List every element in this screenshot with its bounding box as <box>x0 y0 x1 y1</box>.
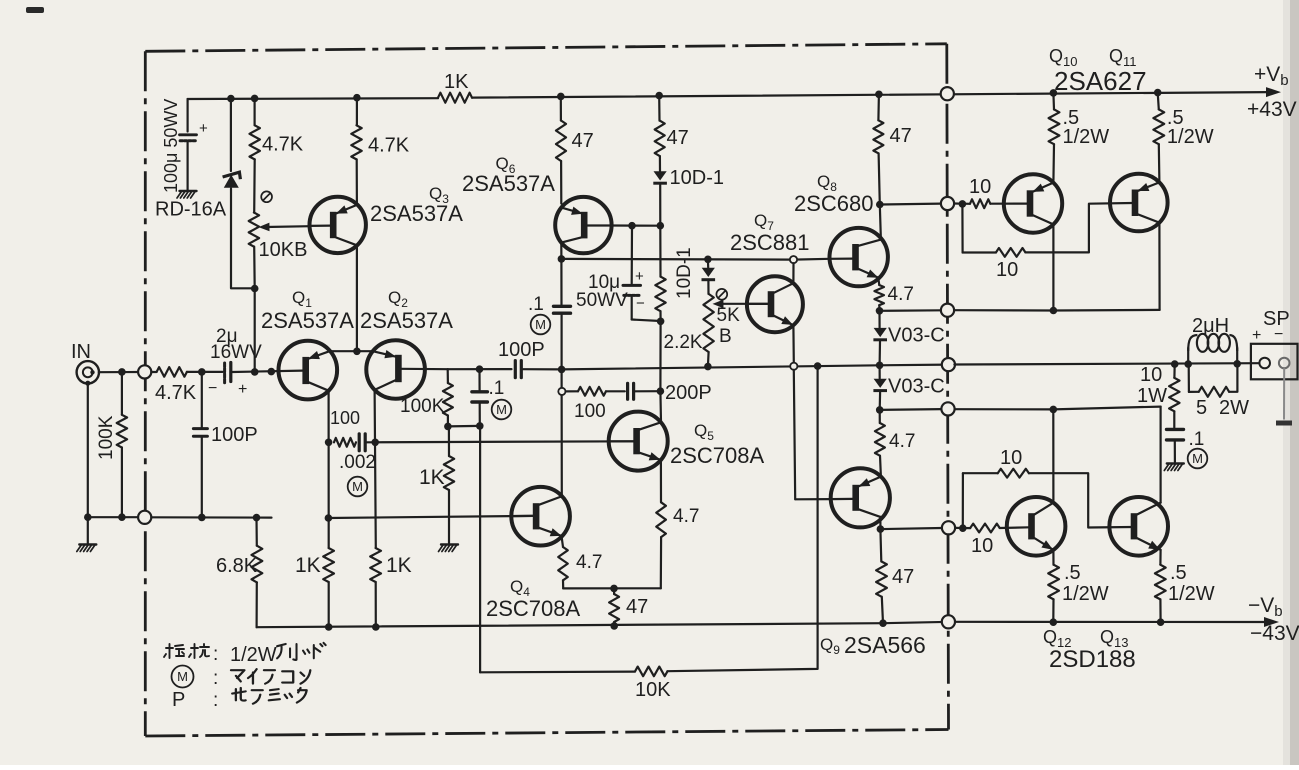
wire Q5 emitter to 4.7 <box>660 460 662 502</box>
module border right <box>947 44 949 730</box>
wire chain to Q5 collector <box>659 391 662 422</box>
resistor 100K (input shunt) <box>121 372 123 415</box>
svg-text:5: 5 <box>1196 397 1207 419</box>
svg-text:100: 100 <box>574 401 606 422</box>
terminal GND on border <box>138 511 151 524</box>
node 47 tail <box>610 585 618 593</box>
wire Q2 base to fb node <box>401 368 447 371</box>
wire V03-C bottom to border <box>880 408 942 411</box>
terminal on border (-Vb) <box>942 615 955 628</box>
resistor 47 (Q8 collector) <box>877 94 880 120</box>
svg-text:100: 100 <box>330 408 360 428</box>
node V03-C bottom <box>876 406 884 414</box>
wire to diode 1 <box>878 311 880 328</box>
svg-text:B: B <box>719 326 732 347</box>
wire jack to border terminal <box>99 371 138 373</box>
svg-text:10K: 10K <box>635 679 671 701</box>
wire 4.7K to pot <box>253 159 256 212</box>
svg-text:1/2W: 1/2W <box>1168 583 1215 605</box>
svg-text:10D-1: 10D-1 <box>670 167 724 189</box>
node bias chain bottom <box>704 363 712 371</box>
+Vb rail wire right <box>472 92 1268 98</box>
resistor 10 (Q10 base) <box>970 199 990 208</box>
wire diode to Q6 base node <box>659 185 661 226</box>
wire Q6 collector down <box>560 243 562 259</box>
resistor 100K (feedback) <box>447 369 449 383</box>
wire diode1 to mid <box>878 342 881 366</box>
node coil left <box>1184 360 1192 368</box>
node coil right <box>1233 360 1241 368</box>
module border top <box>145 44 947 52</box>
wire common emitters <box>330 350 373 352</box>
svg-text:47: 47 <box>892 566 914 588</box>
wire Q8 emitter to 4.7 <box>878 278 879 285</box>
diode V03-C (upper) <box>874 328 887 337</box>
svg-text:47: 47 <box>626 596 648 618</box>
transistor Q6 2SA537A <box>555 197 611 253</box>
diode V03-C (lower) <box>874 379 887 388</box>
resistor 100 (bridge) <box>334 438 356 447</box>
svg-text:M: M <box>535 317 546 332</box>
resistor 47 (Q6 emitter) <box>556 121 566 162</box>
node 10u tap <box>628 222 636 230</box>
input jack <box>77 361 99 386</box>
label M (zobel) <box>1188 449 1208 469</box>
node upper drive <box>959 200 967 208</box>
node lower drive <box>959 524 967 532</box>
svg-text:IN: IN <box>71 341 91 363</box>
SP terminal + circle <box>1259 358 1270 369</box>
pot 5K wiper arrow (Q7 base) <box>722 303 768 305</box>
node zener/pot junction <box>251 285 259 293</box>
svg-text:V03-C: V03-C <box>888 376 945 398</box>
svg-text:2SA566: 2SA566 <box>844 632 926 658</box>
capacitor .1 M (feedback) <box>478 369 480 390</box>
svg-text:2W: 2W <box>1219 397 1249 419</box>
transistor Q10 2SA627 <box>1004 174 1062 232</box>
diode 10D-1 (upper) <box>654 171 667 180</box>
-Vb rail wire <box>257 622 1266 627</box>
svg-text:100K: 100K <box>400 396 445 417</box>
node RC bridge left <box>325 439 333 447</box>
svg-text:M: M <box>1192 451 1203 466</box>
svg-text:M: M <box>496 402 507 417</box>
svg-text:−43V: −43V <box>1250 622 1299 645</box>
wire V03-C top to border <box>880 309 942 312</box>
svg-text:10KB: 10KB <box>259 239 308 261</box>
svg-text:10D-1: 10D-1 <box>674 247 695 299</box>
transistor Q3 2SA537A <box>310 197 366 253</box>
svg-text:4.7K: 4.7K <box>368 135 410 157</box>
resistor .5 1/2W (Q12) <box>1052 550 1054 565</box>
wire bias node down to Q1 base <box>254 289 256 372</box>
node 100K input top <box>118 368 126 376</box>
svg-text:100P: 100P <box>498 339 545 361</box>
ground (feedback 1K) <box>441 543 458 545</box>
svg-text:2.2K: 2.2K <box>664 332 703 353</box>
svg-text::: : <box>213 644 218 665</box>
resistor 10 (cross lower) <box>998 469 1029 478</box>
transistor Q4 2SC708A <box>511 487 570 546</box>
SP terminal - circle <box>1279 358 1290 369</box>
svg-text:+: + <box>635 268 644 285</box>
svg-text:4.7: 4.7 <box>888 284 914 305</box>
node 100K-fb top <box>268 368 276 376</box>
open junction Q7 collector <box>790 256 797 263</box>
SP terminal box <box>1251 344 1298 380</box>
potentiometer 5K B <box>703 294 713 352</box>
wire 4.7K top <box>254 98 256 125</box>
node fb divider <box>444 423 452 431</box>
transistor Q9 2SA566 <box>831 468 890 527</box>
svg-text:100P: 100P <box>211 424 258 446</box>
wire Q12 collector up <box>1052 409 1054 502</box>
top-left stray mark <box>26 7 44 13</box>
wire upper drive to 10 <box>954 202 970 205</box>
zener diode RD-16A <box>224 175 239 188</box>
wire drive line to Q8 base <box>561 258 793 261</box>
resistor 6.8K <box>255 518 257 546</box>
node 10u bottom tap <box>657 318 665 326</box>
inductor 2uH <box>1188 334 1237 364</box>
terminal IN on border <box>138 365 151 378</box>
SP return wire <box>1283 368 1285 419</box>
terminal lower output on border <box>941 402 954 415</box>
wire VAS down to Q4 collector <box>560 369 562 496</box>
resistor 4.7 (Q4 emitter) <box>558 547 568 580</box>
node Q6 base on chain <box>657 222 665 230</box>
svg-text:16WV: 16WV <box>210 342 262 363</box>
terminal lower drive on border <box>942 521 955 534</box>
transistor Q13 2SD188 <box>1109 497 1168 556</box>
node output fb tap <box>814 362 822 370</box>
svg-text:10: 10 <box>1140 364 1162 386</box>
wire diode2 to bottom node <box>879 392 882 410</box>
svg-text:.5: .5 <box>1064 562 1081 584</box>
legend katakana SORIDDO <box>277 643 326 660</box>
svg-text:47: 47 <box>667 127 689 149</box>
potentiometer 10KB <box>249 213 259 247</box>
node VAS output <box>558 366 566 374</box>
svg-text:200P: 200P <box>665 382 712 404</box>
+Vb rail wire <box>188 97 438 100</box>
svg-text:+43V: +43V <box>1247 98 1297 121</box>
svg-text:10: 10 <box>971 535 993 557</box>
svg-text:2μH: 2μH <box>1192 315 1229 337</box>
svg-text:2SA537A: 2SA537A <box>360 308 453 333</box>
wire cross-couple riser left (lower) <box>962 473 964 528</box>
node comp on chain <box>657 387 665 395</box>
svg-text:5K: 5K <box>717 305 741 326</box>
ground (zobel) <box>1167 462 1184 464</box>
svg-text:1W: 1W <box>1137 385 1167 407</box>
wire diode to pot <box>707 281 709 294</box>
resistor 47 (Q9 collector) <box>879 529 882 561</box>
svg-text:100K: 100K <box>96 415 117 460</box>
wire 1K to bus <box>328 582 330 627</box>
wire cross-couple right <box>1025 203 1132 252</box>
wire Q2 collector <box>375 390 376 548</box>
svg-text:1K: 1K <box>386 554 412 577</box>
SP return ground bar <box>1276 421 1292 426</box>
capacitor 100P (coupling) <box>448 368 512 370</box>
-Vb rail arrowhead <box>1264 617 1279 627</box>
resistor 5 2W (damping) <box>1188 364 1190 392</box>
wire zener top <box>230 99 232 171</box>
wire Q4 base line <box>328 516 533 518</box>
node bus Q2 <box>372 623 380 631</box>
svg-text:.5: .5 <box>1170 562 1187 584</box>
ground bus inside <box>151 516 271 518</box>
svg-text:.1: .1 <box>528 294 544 315</box>
capacitor 2u 16WV <box>225 363 231 383</box>
svg-text:10: 10 <box>1000 447 1022 469</box>
node zobel tap <box>1171 360 1179 368</box>
svg-text:2SA537A: 2SA537A <box>261 308 354 333</box>
svg-text:10: 10 <box>969 176 991 198</box>
node Q10 collector on bus <box>1050 307 1058 315</box>
wire cross-couple riser left (upper) <box>961 204 963 253</box>
svg-text::: : <box>213 668 218 689</box>
resistor .5 1/2W (Q13) <box>1159 550 1161 565</box>
pot 10KB wiper arrow to Q3 base <box>266 225 310 228</box>
svg-text:2SC680: 2SC680 <box>794 191 874 216</box>
svg-text:47: 47 <box>890 125 912 147</box>
wire Q1 collector <box>328 391 330 548</box>
transistor Q11 2SA627 <box>1110 174 1168 232</box>
resistor .5 1/2W (Q11) <box>1153 109 1164 144</box>
node bus Q1 <box>325 623 333 631</box>
wire cross-couple left <box>963 251 996 253</box>
ground (input jack) <box>87 517 89 543</box>
svg-text:2SA537A: 2SA537A <box>370 201 463 226</box>
svg-text:+: + <box>199 120 208 137</box>
wire 47 to diode <box>659 156 661 171</box>
svg-text:6.8K: 6.8K <box>216 555 258 577</box>
transistor Q1 2SA537A <box>279 341 338 400</box>
svg-text:RD-16A: RD-16A <box>155 199 227 221</box>
wire Q9 collector <box>879 517 881 529</box>
wire Q5 base line <box>375 441 634 442</box>
open junction Q7 emitter <box>790 363 797 370</box>
svg-text:1/2W: 1/2W <box>1062 583 1109 605</box>
transistor Q12 2SD188 <box>1007 497 1066 556</box>
terminal upper drive on border <box>941 197 954 210</box>
wire Q6 base line <box>611 224 660 226</box>
wire 4.7K to Q3 <box>356 159 358 204</box>
legend katakana SERAMIKKU <box>232 688 306 704</box>
svg-text:10: 10 <box>996 259 1018 281</box>
wire drive-out to border <box>880 203 941 206</box>
rail dots (-Vb) <box>610 622 618 630</box>
svg-text:2SC708A: 2SC708A <box>486 596 581 621</box>
svg-text:1K: 1K <box>444 71 469 93</box>
wire Q9 collector to border <box>880 528 941 529</box>
node Q9 collector <box>877 525 885 533</box>
wire output line (mid) <box>562 365 949 370</box>
label M (bridge) <box>348 477 368 497</box>
wire 4.7K top (Q3) <box>356 98 358 126</box>
svg-text:P: P <box>172 689 185 711</box>
wire Q10 collector down <box>1052 224 1054 310</box>
capacitor .002 M (bridge) <box>358 434 361 451</box>
capacitor .1 M (VAS) <box>560 259 562 305</box>
node Q4 base tap <box>325 514 333 522</box>
wire chain to comp node <box>659 321 661 391</box>
resistor 4.7K (input series) <box>151 371 156 373</box>
resistor 4.7 (Q9 emitter) <box>879 410 881 423</box>
node V03-C midpoint <box>876 362 884 370</box>
capacitor .1 M (zobel) <box>1167 428 1184 431</box>
resistor 10 (cross upper) <box>996 248 1025 257</box>
wire cross-couple left (lower) <box>963 472 998 474</box>
wire 47 to Q6 <box>560 161 562 204</box>
svg-text:47: 47 <box>572 130 594 152</box>
resistor 47 (chain) <box>655 121 665 157</box>
resistor 4.7K (Q3 emitter) <box>351 125 361 159</box>
wire common emitter bus (Q4 Q5) <box>563 587 661 589</box>
open junction 100ohm branch <box>558 388 565 395</box>
svg-text::: : <box>213 690 218 711</box>
resistor 100 (comp) <box>566 390 579 392</box>
svg-text:M: M <box>352 479 363 494</box>
capacitor 10u 50WV <box>631 226 633 284</box>
wire 10 to Q12 base <box>1000 526 1030 529</box>
node bias chain top <box>704 255 712 263</box>
wire lower drive to 10 <box>955 527 970 529</box>
wire cap to Q1 base <box>232 371 302 372</box>
resistor 1K (Q2 collector) <box>370 548 381 582</box>
wire pot bottom <box>253 247 256 289</box>
svg-text:1/2W: 1/2W <box>1167 126 1214 148</box>
wire cross-couple right (lower) <box>1029 473 1132 527</box>
rail junction dots <box>227 95 235 103</box>
svg-text:100μ 50WV: 100μ 50WV <box>161 99 181 193</box>
svg-text:−: − <box>1274 326 1283 343</box>
ground (100u cap) <box>180 190 197 192</box>
svg-text:50WV: 50WV <box>576 290 628 311</box>
right page-edge gray band <box>1290 0 1299 765</box>
wire 4.7K to cap node <box>187 371 223 373</box>
svg-text:1K: 1K <box>419 466 445 489</box>
svg-text:−: − <box>636 295 645 312</box>
capacitor 100u 50WV <box>187 99 189 132</box>
svg-text:2SC708A: 2SC708A <box>670 443 765 468</box>
resistor 4.7 (Q5 emitter) <box>656 502 666 537</box>
legend katakana MAIRAKON <box>231 669 310 684</box>
svg-text:2SA537A: 2SA537A <box>462 171 555 196</box>
wire Q13 collector up <box>1159 407 1161 503</box>
wire mid to diode2 <box>878 365 880 378</box>
wire upper collector bus <box>954 309 1160 312</box>
wire speaker line <box>954 363 1259 364</box>
capacitor 200P <box>606 390 625 392</box>
resistor 4.7 (Q8 emitter) <box>874 285 884 305</box>
node common emitter <box>353 348 361 356</box>
svg-text:V03-C: V03-C <box>888 325 945 347</box>
resistor 10 (Q12 base) <box>970 524 1000 533</box>
resistor .5 1/2W (Q10) <box>1049 109 1060 144</box>
wire 10K line <box>480 670 635 673</box>
label M (feedback cap) <box>492 400 512 420</box>
svg-text:−: − <box>208 380 217 397</box>
wire Q4 collector join <box>560 495 562 497</box>
wire 10K to output riser <box>667 366 817 671</box>
node bias join Q1 base <box>251 368 259 376</box>
svg-text:2SD188: 2SD188 <box>1049 646 1136 673</box>
wire Q9 base riser to output line <box>794 370 795 499</box>
wire Q9 base <box>795 498 831 500</box>
wire spreader top <box>707 259 709 267</box>
transistor Q7 2SC881 <box>747 276 803 332</box>
capacitor 100P (input) <box>201 372 203 427</box>
wire Q7 emitter <box>792 325 795 362</box>
wire fb jog <box>448 425 480 428</box>
resistor 2.2K (chain) <box>659 226 661 277</box>
wire 1K to bus (Q2) <box>375 582 377 627</box>
wire Q11 collector down <box>1158 223 1160 310</box>
wire 10 to Q10 base <box>990 203 1027 205</box>
svg-text:2SA627: 2SA627 <box>1054 66 1147 96</box>
input ground bus <box>87 383 89 517</box>
transistor Q8 2SC680 <box>830 228 888 286</box>
wire lower collector bus <box>955 407 1161 410</box>
legend kanji KOU (resistance) <box>189 644 209 658</box>
svg-text:+: + <box>238 381 247 398</box>
wire Q8 collector up <box>880 205 881 240</box>
wire Q3 collector down <box>356 245 358 351</box>
resistor 10 1W (zobel) <box>1173 364 1175 378</box>
wire zener bottom <box>231 189 255 289</box>
node Q6 collector / drive line <box>558 255 566 263</box>
svg-text:4.7: 4.7 <box>673 506 699 527</box>
transistor Q5 2SC708A <box>609 412 668 471</box>
node V03-C top <box>876 307 884 315</box>
wire 47 top (chain) <box>658 96 660 121</box>
svg-text:.002: .002 <box>339 452 376 473</box>
wire 47 top (Q6) <box>560 96 562 120</box>
+Vb rail arrowhead <box>1266 87 1281 97</box>
svg-text:+: + <box>1252 327 1261 344</box>
svg-text:.1: .1 <box>489 378 505 399</box>
svg-text:4.7: 4.7 <box>576 552 602 573</box>
svg-text:4.7K: 4.7K <box>262 134 304 156</box>
svg-text:1K: 1K <box>295 554 321 577</box>
svg-text:1/2W: 1/2W <box>230 644 277 666</box>
resistor 1K (feedback shunt) <box>448 427 450 457</box>
wire pot to bottom node <box>707 352 710 367</box>
svg-text:4.7K: 4.7K <box>155 382 197 404</box>
wire Q4 emitter to 4.7 <box>562 536 564 547</box>
legend kanji TEI (resistor) <box>164 644 184 658</box>
node input coupling <box>198 368 206 376</box>
label M (VAS cap) <box>531 315 551 335</box>
terminal on border (+Vb) <box>941 87 954 100</box>
resistor 1K (rail series) <box>438 93 472 103</box>
node Q8 collector / drive-out <box>876 201 884 209</box>
resistor 4.7K (bias) <box>250 125 260 159</box>
wire Q7 collector <box>792 263 794 283</box>
wire feedback riser <box>479 426 481 672</box>
resistor 47 (tail) <box>609 594 619 622</box>
resistor 1K (Q1 collector) <box>323 548 334 582</box>
svg-text:M: M <box>177 669 188 684</box>
terminal output on border <box>942 358 955 371</box>
node Q12 collector on bus <box>1050 406 1058 414</box>
svg-text:2SC881: 2SC881 <box>730 230 810 255</box>
svg-text:4.7: 4.7 <box>889 431 915 452</box>
module border left <box>144 51 147 736</box>
